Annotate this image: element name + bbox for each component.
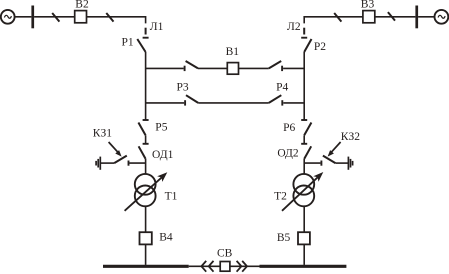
disconnector P2 blade <box>304 39 311 52</box>
line Л1 dashed entry <box>145 28 147 35</box>
wire: B4 to left LV bus <box>145 244 147 265</box>
wire: line Л2 corner to B3 <box>304 17 363 24</box>
wire: ground to KZ1 blade <box>100 162 114 164</box>
disconnector slash (left of B3) <box>334 13 341 22</box>
wire: tie 1 left switch to breaker B1 <box>198 67 227 69</box>
bus coupler SV <box>220 262 230 272</box>
wire: P6 to OD2 <box>303 135 305 144</box>
svg-text:Т1: Т1 <box>165 190 178 202</box>
svg-text:ОД1: ОД1 <box>152 149 174 161</box>
svg-text:Р2: Р2 <box>314 41 326 53</box>
disconnector P1 blade <box>137 39 145 52</box>
breaker B3 <box>363 11 375 23</box>
svg-text:Р5: Р5 <box>155 122 167 134</box>
wire: B1 to tie 1 right switch <box>239 67 269 69</box>
KZ1 pointer arrow <box>109 142 122 157</box>
tie 1 right switch tick <box>281 66 283 71</box>
wire: right vertical to KZ2 tick <box>304 162 320 164</box>
separator OD1 contact tick <box>143 143 149 145</box>
tie 2 middle wire <box>198 102 269 104</box>
disconnector slash (right of B2) <box>106 13 113 22</box>
disconnector P3 blade <box>186 95 198 103</box>
KZ1 contact tick <box>128 161 130 166</box>
breaker B4 <box>140 232 152 244</box>
wire: KZ2 blade to ground <box>335 162 348 164</box>
disconnector P6 blade <box>304 123 311 136</box>
wire: OD1 to transformer T1 <box>145 159 147 174</box>
tie 2 wire: left vertical to P3 <box>146 102 185 104</box>
svg-text:Т2: Т2 <box>274 191 287 203</box>
AC source G1 (left) <box>1 10 15 24</box>
wire: busbar to breaker B2 <box>34 16 75 18</box>
wire: T1 to breaker B4 <box>145 206 147 232</box>
disconnector P1 contact tick <box>143 37 149 39</box>
short-circuiter KZ2 blade <box>323 156 336 164</box>
disconnector P5 contact tick <box>143 119 149 121</box>
svg-text:В1: В1 <box>226 46 240 58</box>
SV left chevrons <box>201 261 213 272</box>
right LV busbar <box>260 265 347 268</box>
svg-text:В5: В5 <box>277 232 291 244</box>
svg-text:СВ: СВ <box>217 248 233 260</box>
SV right chevrons <box>237 261 247 272</box>
svg-text:Л2: Л2 <box>287 21 301 33</box>
breaker B2 <box>75 11 87 23</box>
separator OD1 blade <box>139 146 146 159</box>
svg-text:ОД2: ОД2 <box>277 147 299 159</box>
tie 1 left switch tick <box>184 66 186 71</box>
KZ2 contact tick <box>320 161 322 166</box>
svg-text:КЗ1: КЗ1 <box>93 127 112 139</box>
wire: T2 to breaker B5 <box>303 206 305 232</box>
wire: B2 to corner of line Л1 <box>87 17 146 24</box>
wire: P5 to OD1 <box>145 135 147 144</box>
wire: right feeder vertical P2 to P6 <box>303 52 305 120</box>
tie 1 wire: left vertical to left switch <box>146 67 184 69</box>
tie 1 left switch blade <box>186 61 198 68</box>
disconnector P6 contact tick <box>301 119 307 121</box>
disconnector P3 tick <box>184 100 186 105</box>
disconnector slash (right of B3) <box>388 12 395 21</box>
disconnector slash (left of B2) <box>52 13 59 22</box>
separator OD2 blade <box>304 146 311 159</box>
wire: tie 1 right switch to right vertical <box>283 67 304 69</box>
wire: G1 to left busbar <box>15 16 32 18</box>
breaker B5 <box>298 232 310 244</box>
right system busbar <box>415 6 418 29</box>
svg-text:Л1: Л1 <box>150 21 164 33</box>
svg-text:В2: В2 <box>75 0 89 11</box>
disconnector P2 contact tick <box>301 37 307 39</box>
wire: OD2 to transformer T2 <box>303 159 305 174</box>
KZ2 pointer arrow <box>328 142 341 157</box>
T2 regulation arrow <box>282 172 323 211</box>
svg-text:Р4: Р4 <box>276 82 288 94</box>
KZ2 ground <box>348 157 352 170</box>
tie 1 right switch blade <box>269 61 281 68</box>
separator OD2 contact tick <box>301 143 307 145</box>
wire: B5 to right LV bus <box>303 244 305 265</box>
wire: left bus to SV coupler <box>189 265 221 267</box>
wire: busbar to G2 <box>418 16 435 18</box>
transformer T1 <box>135 174 156 206</box>
wire: B3 to right busbar <box>375 16 416 18</box>
short-circuiter KZ1 blade <box>114 156 127 164</box>
svg-text:В4: В4 <box>159 232 173 244</box>
AC source G2 (right) <box>435 10 449 24</box>
line Л2 dashed entry <box>303 28 305 35</box>
T1 regulation arrow <box>125 172 168 211</box>
wire: P4 to right vertical <box>283 102 304 104</box>
wire: left feeder vertical P1 to P5 <box>145 52 147 120</box>
wire: KZ1 tick to left vertical <box>130 162 146 164</box>
svg-text:Р1: Р1 <box>122 37 134 49</box>
disconnector P4 blade <box>269 95 282 103</box>
svg-text:Р6: Р6 <box>283 122 295 134</box>
svg-text:КЗ2: КЗ2 <box>341 131 360 143</box>
disconnector P5 blade <box>138 123 145 136</box>
wire: SV coupler to right bus <box>230 265 260 267</box>
KZ1 ground <box>96 157 100 170</box>
breaker B1 <box>227 63 238 75</box>
disconnector P4 tick <box>281 100 283 105</box>
transformer T2 <box>293 174 314 206</box>
left LV busbar <box>103 265 189 268</box>
left system busbar <box>31 6 34 29</box>
svg-text:В3: В3 <box>361 0 375 11</box>
svg-text:Р3: Р3 <box>177 81 189 93</box>
